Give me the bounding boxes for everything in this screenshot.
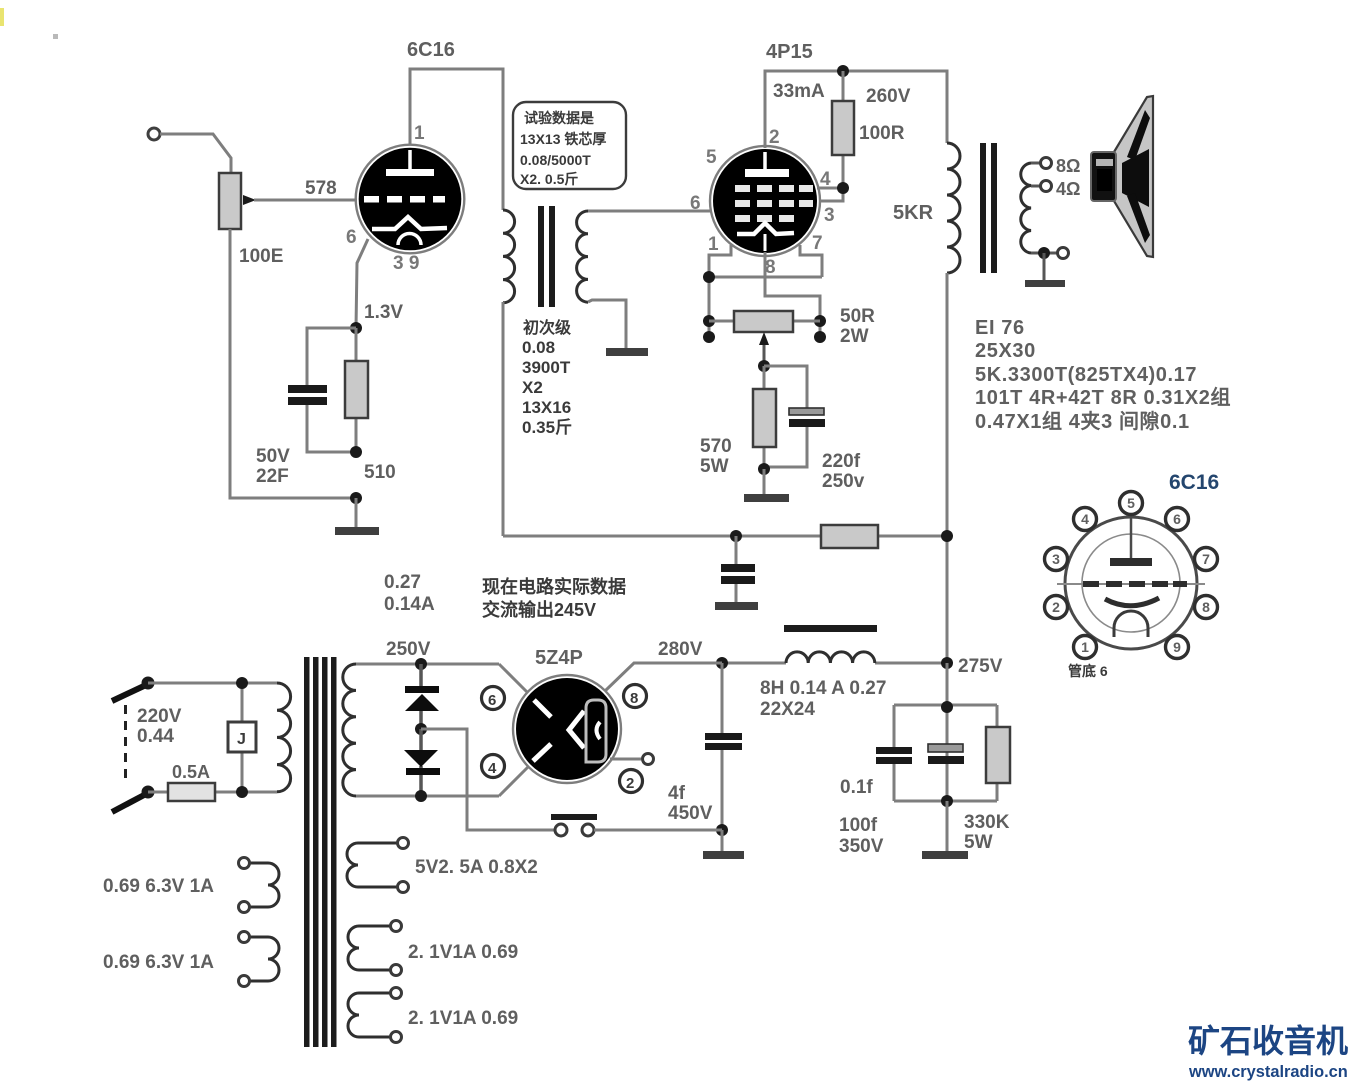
svg-text:初次级: 初次级 xyxy=(523,318,572,337)
label 5Z4P xyxy=(535,647,583,669)
svg-text:9: 9 xyxy=(1173,639,1181,655)
svg-text:25X30: 25X30 xyxy=(975,340,1036,362)
pin 3 9 label xyxy=(393,253,419,274)
svg-text:0.69 6.3V 1A: 0.69 6.3V 1A xyxy=(103,952,214,973)
node pin4 xyxy=(837,182,849,194)
svg-text:578: 578 xyxy=(305,178,337,199)
svg-text:0.5A: 0.5A xyxy=(172,762,210,782)
node heater left xyxy=(703,271,715,343)
svg-text:2W: 2W xyxy=(840,326,869,347)
svg-text:50R: 50R xyxy=(840,306,875,327)
label 100f 350V xyxy=(839,815,884,857)
node cathode bottom xyxy=(350,446,362,504)
wire plate to interstage primary xyxy=(410,69,503,210)
svg-text:2. 1V1A 0.69: 2. 1V1A 0.69 xyxy=(408,942,518,963)
label 5KR xyxy=(893,202,934,224)
svg-text:现在电路实际数据: 现在电路实际数据 xyxy=(482,576,626,597)
terminals 6.3V a xyxy=(239,858,250,913)
pin2 stub xyxy=(610,754,654,765)
resistor B+ dropper xyxy=(821,525,878,548)
svg-text:4: 4 xyxy=(488,760,497,777)
svg-text:8Ω: 8Ω xyxy=(1056,156,1080,176)
svg-text:1: 1 xyxy=(414,123,425,144)
svg-text:J: J xyxy=(237,731,246,748)
svg-text:5Z4P: 5Z4P xyxy=(535,647,583,669)
pin labels 4P15 xyxy=(690,127,835,278)
watermark crystalradio xyxy=(1188,1023,1348,1081)
svg-text:1.3V: 1.3V xyxy=(364,302,403,323)
svg-text:矿石收音机: 矿石收音机 xyxy=(1188,1023,1348,1059)
svg-text:8: 8 xyxy=(765,257,776,278)
fuse 0.5A xyxy=(168,762,215,801)
svg-text:3900T: 3900T xyxy=(522,358,571,377)
label 2.1V b xyxy=(408,1008,518,1029)
wire input to pot xyxy=(160,134,231,173)
svg-text:100R: 100R xyxy=(859,123,905,144)
svg-text:0.35斤: 0.35斤 xyxy=(522,418,572,437)
interstage transformer secondary xyxy=(577,211,588,302)
terminals 5V xyxy=(398,838,409,893)
wire pin7 bracket xyxy=(800,245,822,277)
ground speaker xyxy=(1025,253,1065,287)
node filter top xyxy=(941,701,953,713)
mains switch top xyxy=(112,677,155,702)
label 510 xyxy=(364,462,396,483)
svg-text:0.08/5000T: 0.08/5000T xyxy=(520,152,591,168)
filament winding 5V2.5A xyxy=(347,843,397,887)
ground 4P15 cathode xyxy=(744,469,789,502)
pin 6 label xyxy=(346,227,357,248)
svg-text:5: 5 xyxy=(1127,495,1135,511)
svg-text:0.44: 0.44 xyxy=(137,726,174,747)
svg-text:4P15: 4P15 xyxy=(766,41,813,63)
wire diode junction to filament xyxy=(421,729,555,830)
svg-text:5W: 5W xyxy=(700,456,729,477)
svg-text:101T 4R+42T 8R 0.31X2组: 101T 4R+42T 8R 0.31X2组 xyxy=(975,385,1231,409)
svg-text:管底 6: 管底 6 xyxy=(1068,663,1108,679)
label 330K 5W xyxy=(964,812,1010,853)
tap 4 ohm xyxy=(1031,179,1080,199)
svg-text:3: 3 xyxy=(824,205,835,226)
potentiometer 100E xyxy=(219,173,256,229)
capacitor 4f 450V xyxy=(705,663,742,830)
output transformer core xyxy=(980,143,997,273)
power transformer core xyxy=(304,657,337,1047)
tube V1 6C16 xyxy=(356,145,465,254)
svg-text:EI 76: EI 76 xyxy=(975,317,1025,339)
pin 8 circled xyxy=(624,685,647,708)
svg-text:交流输出245V: 交流输出245V xyxy=(482,599,596,620)
label 100R xyxy=(859,123,905,144)
wire pin8 cathode xyxy=(765,252,820,321)
label 275V xyxy=(958,656,1003,677)
node diode junction xyxy=(415,723,427,735)
svg-text:0.69 6.3V 1A: 0.69 6.3V 1A xyxy=(103,876,214,897)
label 220f 250v xyxy=(822,451,865,492)
pin 1 label xyxy=(414,123,425,144)
wire pin8 to 280V xyxy=(605,663,722,691)
neon lamp J xyxy=(228,677,256,798)
svg-text:350V: 350V xyxy=(839,836,884,857)
svg-text:6: 6 xyxy=(346,227,357,248)
capacitor 0.1f xyxy=(876,747,912,764)
svg-text:22F: 22F xyxy=(256,466,289,487)
svg-text:X2. 0.5斤: X2. 0.5斤 xyxy=(520,171,578,187)
resistor 570 5W xyxy=(753,366,776,469)
svg-text:0.47X1组 4夹3 间隙0.1: 0.47X1组 4夹3 间隙0.1 xyxy=(975,409,1190,433)
heater winding 2.1V b xyxy=(348,993,390,1037)
note box winding data xyxy=(513,102,626,189)
label 6.3V b xyxy=(103,952,214,973)
svg-text:6: 6 xyxy=(488,692,496,709)
diode D2 xyxy=(404,729,440,796)
label 5V2.5A xyxy=(415,857,538,878)
wire plate pin4 xyxy=(499,767,528,796)
svg-text:50V: 50V xyxy=(256,446,290,467)
svg-text:7: 7 xyxy=(1202,551,1210,567)
capacitor 22F 50V xyxy=(288,385,327,405)
svg-text:3: 3 xyxy=(1052,551,1060,567)
node filter bottom xyxy=(941,795,953,807)
node HV bottom xyxy=(415,790,427,802)
label output transformer data xyxy=(975,317,1231,433)
svg-text:2: 2 xyxy=(769,127,780,148)
power transformer primary xyxy=(277,683,291,792)
svg-text:6C16: 6C16 xyxy=(1169,471,1219,494)
svg-text:0.27: 0.27 xyxy=(384,572,421,593)
svg-text:570: 570 xyxy=(700,436,732,457)
svg-text:250v: 250v xyxy=(822,471,865,492)
capacitor 100f 350V xyxy=(928,744,964,764)
HV winding 250V xyxy=(343,664,356,796)
node 280V xyxy=(716,657,728,669)
svg-text:22X24: 22X24 xyxy=(760,699,815,720)
label 570 5W xyxy=(700,436,732,477)
output transformer secondary xyxy=(1021,163,1031,253)
tube V3 5Z4P xyxy=(513,675,621,783)
label 2.1V a xyxy=(408,942,518,963)
svg-text:2. 1V1A 0.69: 2. 1V1A 0.69 xyxy=(408,1008,518,1029)
output transformer T2 primary xyxy=(947,143,960,273)
svg-text:7: 7 xyxy=(812,233,823,254)
node B+ rail left xyxy=(730,530,742,542)
svg-text:13X16: 13X16 xyxy=(522,398,571,417)
6C16 base diagram xyxy=(1045,471,1220,679)
svg-text:6: 6 xyxy=(690,193,701,214)
node plate rail xyxy=(837,65,849,77)
svg-text:260V: 260V xyxy=(866,86,911,107)
diode D1 xyxy=(405,664,439,729)
label 220V 0.44 xyxy=(137,706,182,747)
svg-text:220V: 220V xyxy=(137,706,182,727)
svg-text:8H 0.14 A 0.27: 8H 0.14 A 0.27 xyxy=(760,678,886,699)
pin 4 circled xyxy=(482,755,505,778)
final filter node xyxy=(894,663,997,801)
wire plate 4P15 to rail xyxy=(765,71,947,148)
svg-text:5W: 5W xyxy=(964,832,993,853)
svg-text:1: 1 xyxy=(708,234,719,255)
node cathode R top xyxy=(758,360,770,372)
pin 2 circled xyxy=(620,770,643,793)
svg-text:8: 8 xyxy=(1202,599,1210,615)
label 33mA xyxy=(773,81,825,102)
node 275V xyxy=(941,657,953,669)
label 100E xyxy=(239,246,283,267)
terminals 2.1V a xyxy=(391,921,402,976)
node cathode R bottom xyxy=(758,463,770,475)
terminals 2.1V b xyxy=(391,988,402,1043)
label 578 xyxy=(305,178,337,199)
label choke xyxy=(760,678,886,720)
wire pot bottom to cathode node xyxy=(230,229,356,498)
label 6.3V a xyxy=(103,876,214,897)
svg-text:4: 4 xyxy=(1081,511,1089,527)
heater winding 2.1V a xyxy=(348,926,390,970)
node 1.3V xyxy=(350,302,403,334)
svg-text:4f: 4f xyxy=(668,783,686,804)
wire heater bus xyxy=(709,277,822,337)
svg-text:6C16: 6C16 xyxy=(407,39,455,61)
capacitor 220f 250v xyxy=(764,366,825,467)
terminals 6.3V b xyxy=(239,932,250,987)
secondary bottom terminal xyxy=(1031,247,1069,259)
hum pot 50R 2W xyxy=(709,311,820,366)
svg-text:13X13 铁芯厚: 13X13 铁芯厚 xyxy=(520,131,606,147)
label 50V 22F xyxy=(256,446,290,487)
svg-text:试验数据是: 试验数据是 xyxy=(524,110,595,126)
ground stage1 xyxy=(335,498,379,535)
ground 4f xyxy=(703,830,744,859)
svg-text:5KR: 5KR xyxy=(893,202,934,224)
svg-text:6: 6 xyxy=(1173,511,1181,527)
wire wiper to grid xyxy=(254,199,357,202)
svg-text:100E: 100E xyxy=(239,246,283,267)
node heater right xyxy=(814,315,826,343)
svg-text:8: 8 xyxy=(630,690,638,707)
wire HV bottom xyxy=(356,795,499,798)
wire secondary top to 4P15 grid xyxy=(588,210,711,213)
wire HV top xyxy=(356,663,499,666)
label 4f 450V xyxy=(668,783,713,824)
wire secondary bottom to ground xyxy=(588,300,626,349)
heater winding 6.3V a xyxy=(250,863,279,907)
svg-text:4Ω: 4Ω xyxy=(1056,179,1080,199)
interstage transformer T1 primary xyxy=(503,210,515,303)
svg-text:1: 1 xyxy=(1081,639,1089,655)
wire mains top xyxy=(148,682,277,685)
label 4P15 xyxy=(766,41,813,63)
interstage transformer core xyxy=(538,206,555,307)
svg-text:0.14A: 0.14A xyxy=(384,594,435,615)
svg-text:280V: 280V xyxy=(658,639,703,660)
label 6C16 xyxy=(407,39,455,61)
mains switch bottom xyxy=(112,786,155,813)
ground filter xyxy=(922,801,968,859)
svg-text:33mA: 33mA xyxy=(773,81,825,102)
node cap 4f bottom xyxy=(716,824,728,836)
label 0.27 0.14A xyxy=(384,572,435,615)
svg-text:5V2. 5A 0.8X2: 5V2. 5A 0.8X2 xyxy=(415,857,538,878)
input terminal xyxy=(148,128,160,140)
pin 6 circled xyxy=(482,687,505,710)
svg-text:220f: 220f xyxy=(822,451,861,472)
wire mains bottom xyxy=(148,791,277,794)
resistor 510 xyxy=(345,328,368,452)
ground decoupling xyxy=(715,602,758,610)
svg-text:X2: X2 xyxy=(522,378,543,397)
label 50R 2W xyxy=(840,306,875,347)
tap 8 ohm xyxy=(1031,156,1080,176)
decoupling capacitor xyxy=(721,536,755,603)
svg-text:450V: 450V xyxy=(668,803,713,824)
svg-text:www.crystalradio.cn: www.crystalradio.cn xyxy=(1188,1063,1348,1081)
svg-text:275V: 275V xyxy=(958,656,1003,677)
wire primary bottom to B+ rail xyxy=(502,302,505,536)
corner yellow mark xyxy=(0,8,58,39)
note actual data xyxy=(482,576,626,620)
label interstage data xyxy=(522,318,572,437)
label 0.1f xyxy=(840,777,873,798)
label 250V xyxy=(386,639,431,660)
wire pin1 bracket xyxy=(709,245,731,277)
svg-text:100f: 100f xyxy=(839,815,878,836)
svg-text:2: 2 xyxy=(626,775,634,792)
node 250V xyxy=(415,658,427,670)
tube V2 4P15 xyxy=(710,146,820,256)
wire to bypass cap xyxy=(307,328,356,452)
filament switch contacts xyxy=(551,814,722,836)
svg-text:5K.3300T(825TX4)0.17: 5K.3300T(825TX4)0.17 xyxy=(975,364,1197,386)
svg-text:0.08: 0.08 xyxy=(522,338,555,357)
svg-text:510: 510 xyxy=(364,462,396,483)
choke 8H xyxy=(722,625,947,663)
ground interstage xyxy=(606,348,648,356)
svg-text:0.1f: 0.1f xyxy=(840,777,873,798)
label 260V xyxy=(866,86,911,107)
svg-text:330K: 330K xyxy=(964,812,1010,833)
svg-text:2: 2 xyxy=(1052,599,1060,615)
svg-text:250V: 250V xyxy=(386,639,431,660)
label 280V xyxy=(658,639,703,660)
B+ rail xyxy=(503,273,947,664)
speaker xyxy=(1091,96,1153,257)
node B+ rail right xyxy=(941,530,953,542)
svg-text:5: 5 xyxy=(706,147,717,168)
svg-text:3 9: 3 9 xyxy=(393,253,419,274)
wire pin4 pin3 xyxy=(817,188,843,201)
switch link dashed xyxy=(124,705,127,784)
resistor 330K 5W xyxy=(986,727,1010,783)
heater winding 6.3V b xyxy=(250,937,279,981)
wire plate pin6 xyxy=(499,664,528,693)
base pins xyxy=(1045,492,1218,659)
wire cathode pin6 down xyxy=(356,239,368,328)
resistor 100R screen xyxy=(832,71,854,188)
